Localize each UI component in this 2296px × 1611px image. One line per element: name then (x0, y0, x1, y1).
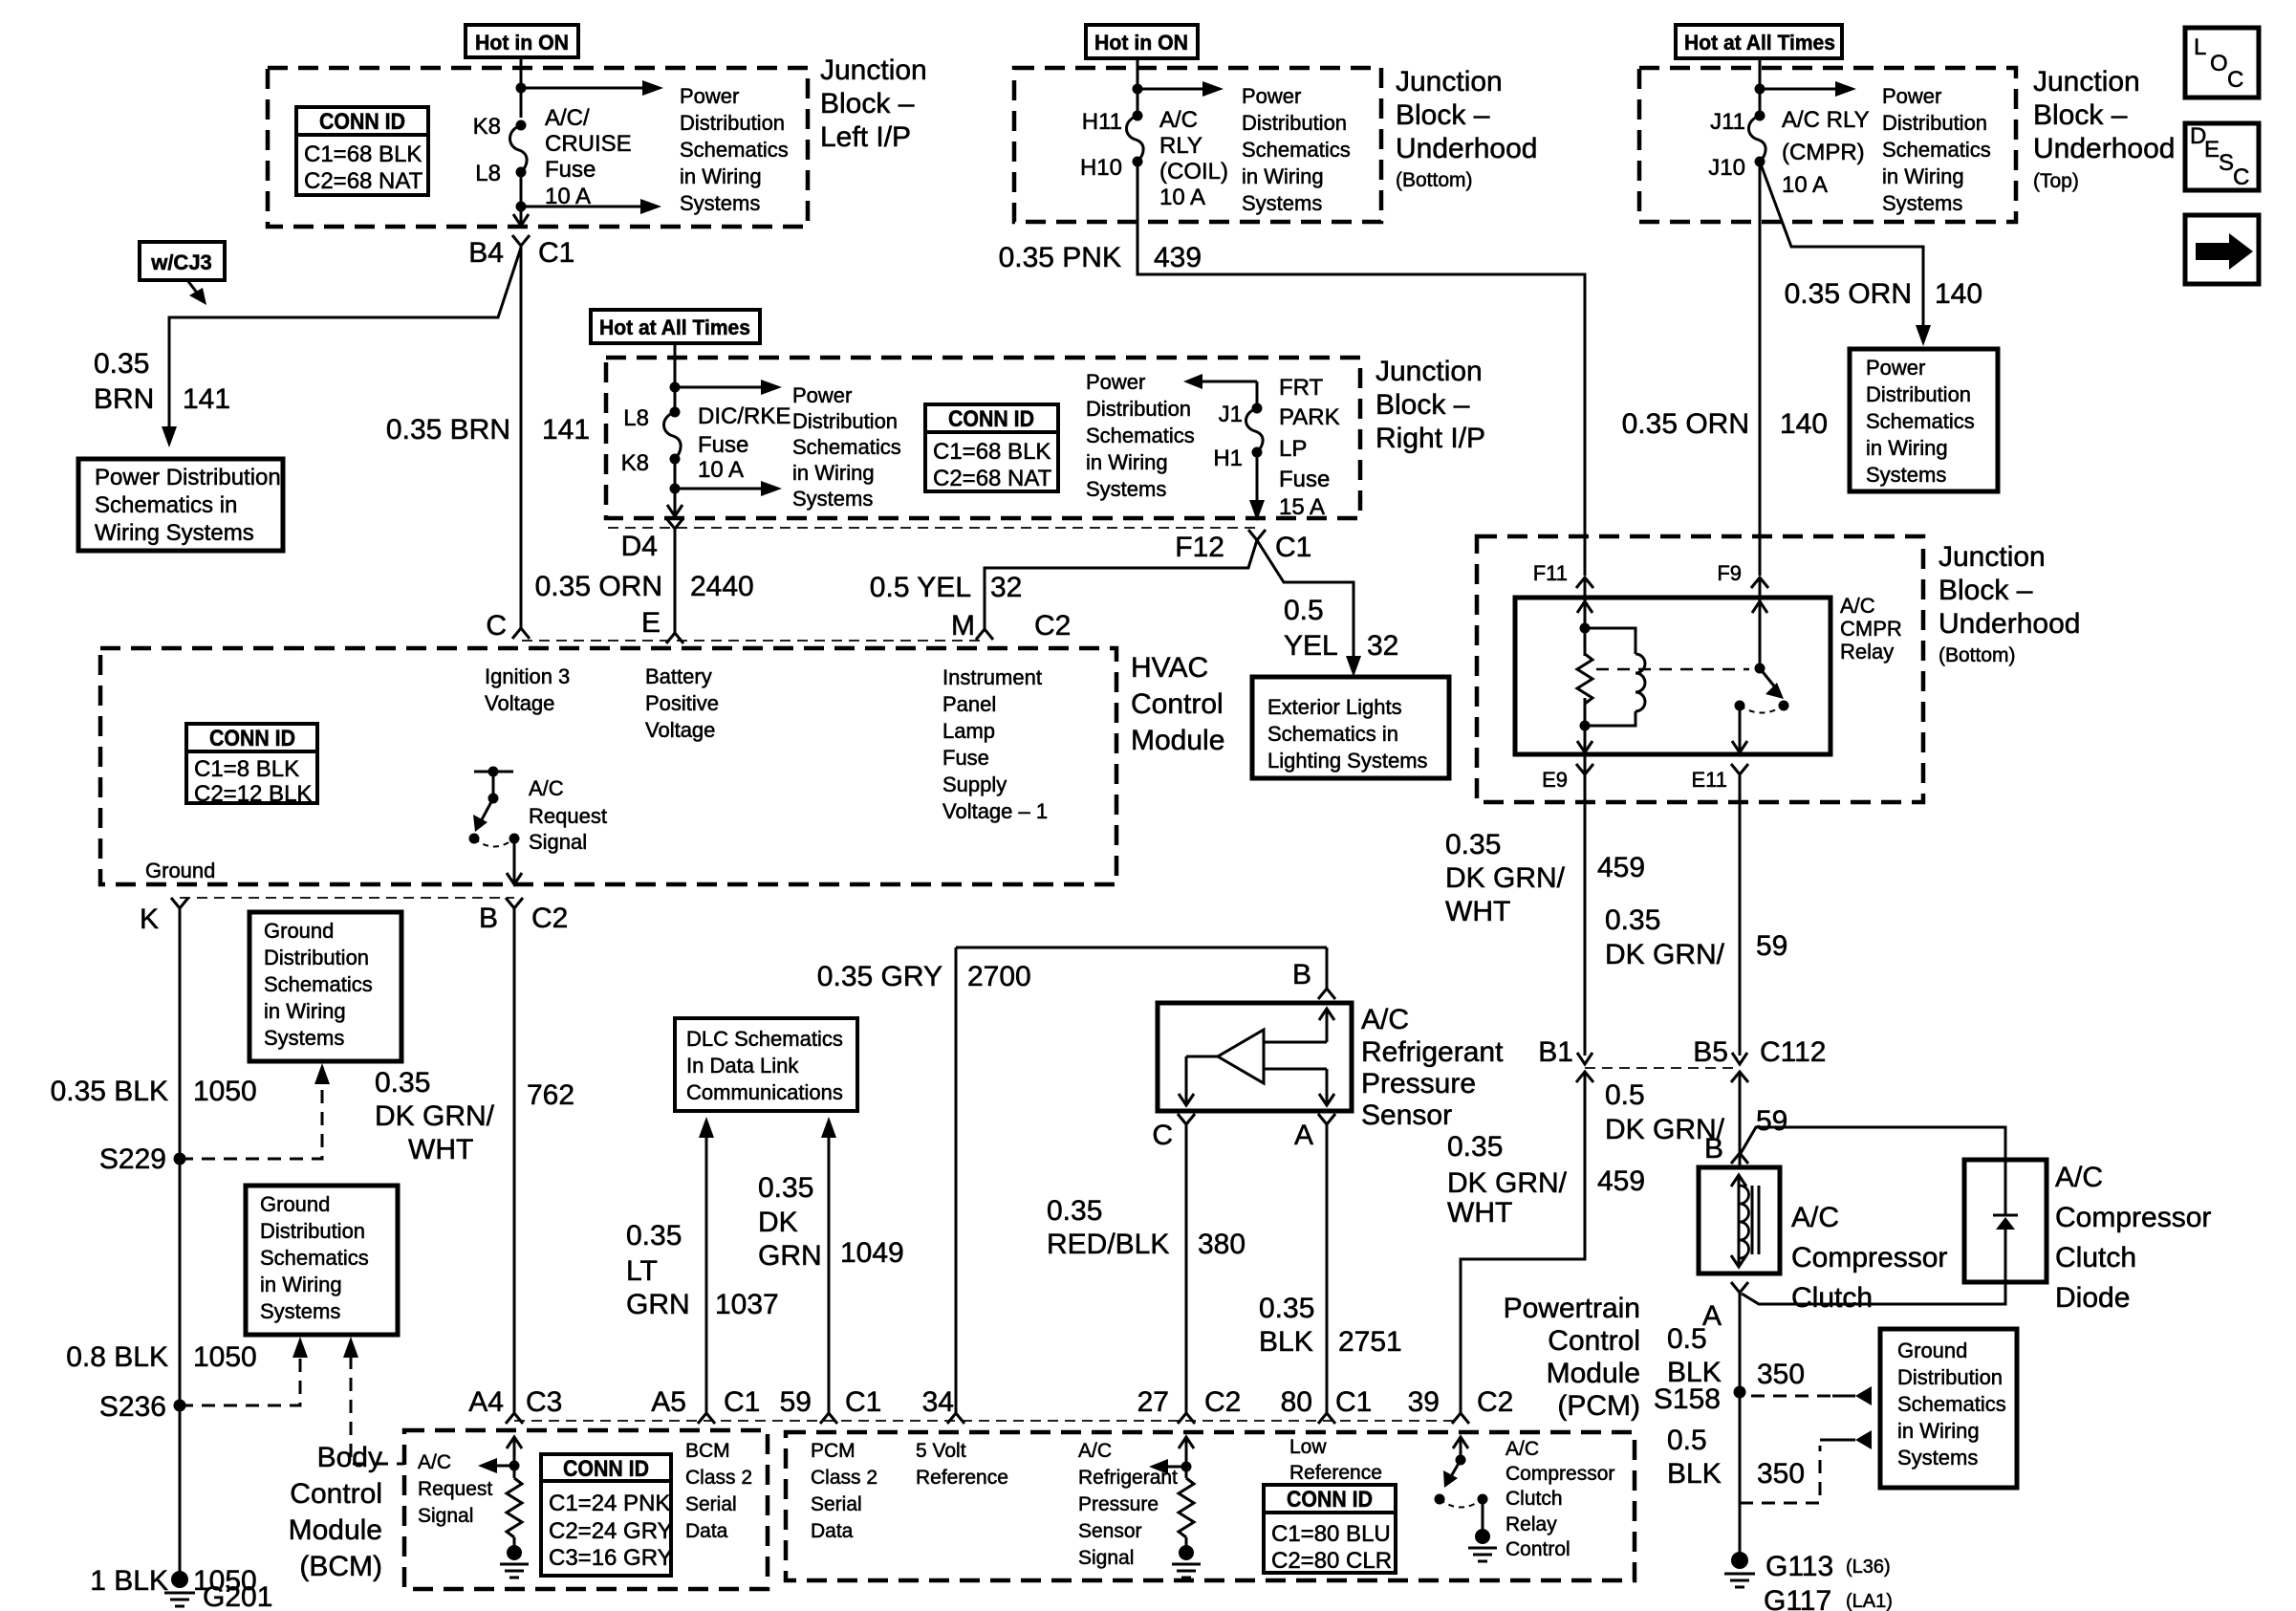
svg-text:Distribution: Distribution (1086, 397, 1191, 421)
connector D4 (621, 518, 683, 562)
svg-text:C1=8 BLK: C1=8 BLK (194, 756, 299, 782)
svg-text:Schematics: Schematics (260, 1246, 369, 1270)
svg-text:0.35: 0.35 (1447, 1131, 1503, 1163)
Power Distribution Schematics in Wiring Systems box (left) (78, 459, 283, 551)
Hot in ON box (middle) (1086, 25, 1198, 58)
wire F12 branch left to HVAC pin M (985, 540, 1257, 629)
svg-text:459: 459 (1597, 1165, 1645, 1197)
svg-text:Block –: Block – (820, 88, 915, 120)
dashed ground reference S158 (1751, 1386, 1872, 1405)
svg-text:(PCM): (PCM) (1557, 1390, 1640, 1422)
svg-text:E9: E9 (1542, 768, 1568, 792)
svg-text:Distribution: Distribution (680, 111, 785, 135)
connector line C2 thin dashed (bottom) (180, 897, 514, 899)
svg-text:RLY: RLY (1159, 133, 1202, 159)
svg-text:0.5: 0.5 (1667, 1425, 1707, 1456)
connector F11 (1533, 561, 1593, 588)
svg-text:C1: C1 (1335, 1386, 1372, 1418)
arrow to Power Distribution (upper) (521, 80, 663, 96)
arrow to Power Distribution (1137, 81, 1224, 97)
svg-text:BCM: BCM (685, 1440, 730, 1462)
svg-text:GRN: GRN (758, 1240, 822, 1272)
svg-text:H10: H10 (1080, 155, 1122, 181)
svg-text:Signal: Signal (529, 830, 587, 854)
svg-text:0.35 ORN: 0.35 ORN (535, 571, 662, 602)
svg-text:C1=68 BLK: C1=68 BLK (933, 439, 1051, 465)
svg-text:Refrigerant: Refrigerant (1361, 1036, 1504, 1068)
svg-text:59: 59 (1756, 1105, 1787, 1137)
wire Hot at All Times down (1759, 58, 1762, 116)
label A/C Compressor Clutch Diode (2055, 1162, 2211, 1314)
svg-text:80: 80 (1281, 1386, 1312, 1418)
label Junction Block Underhood (Top) (2033, 66, 2175, 192)
relay coil input arrow (1577, 601, 1592, 613)
label 0.35 DK GRN/ WHT | 762 (375, 1067, 574, 1165)
svg-text:A: A (1294, 1120, 1313, 1151)
svg-text:S229: S229 (99, 1143, 166, 1175)
svg-text:L: L (2194, 34, 2206, 60)
svg-text:Relay: Relay (1505, 1513, 1557, 1535)
svg-text:Wiring Systems: Wiring Systems (95, 520, 254, 546)
w/CJ3 pointer arrow (187, 280, 206, 305)
relay switch output wire (1739, 706, 1742, 752)
svg-text:E: E (641, 607, 661, 639)
wire 140 main: J10 down to F9 (1759, 162, 1762, 576)
svg-text:Ground: Ground (264, 919, 334, 943)
svg-text:Compressor: Compressor (1505, 1463, 1614, 1485)
svg-text:Control: Control (1548, 1325, 1640, 1357)
svg-text:0.35 ORN: 0.35 ORN (1785, 278, 1912, 310)
arrow to Power Distribution (675, 380, 782, 395)
relay junction dot (1580, 623, 1591, 634)
svg-text:Hot in ON: Hot in ON (475, 31, 569, 54)
wire diode branch top (1740, 1127, 2005, 1160)
svg-text:39: 39 (1408, 1386, 1440, 1418)
svg-text:Distribution: Distribution (1242, 111, 1347, 135)
label 0.8 BLK | 1050 (66, 1341, 257, 1373)
svg-text:140: 140 (1780, 408, 1828, 440)
svg-text:BLK: BLK (1259, 1326, 1313, 1358)
svg-text:Systems: Systems (1086, 477, 1166, 501)
Hot at All Times box (middle) (591, 310, 760, 343)
svg-text:Schematics in: Schematics in (1267, 722, 1398, 746)
wire 140 branch: J10 to Power Distribution box (1760, 162, 1931, 346)
svg-text:In Data Link: In Data Link (686, 1054, 799, 1078)
svg-text:A/C: A/C (1791, 1202, 1839, 1233)
svg-text:BLK: BLK (1667, 1458, 1722, 1490)
text BCM Class 2 Serial Data (685, 1440, 752, 1542)
junction node dot (516, 83, 527, 94)
svg-text:Compressor: Compressor (2055, 1202, 2211, 1233)
svg-text:15 A: 15 A (1279, 494, 1325, 520)
svg-text:0.35 PNK: 0.35 PNK (999, 242, 1121, 273)
dashed ground reference lower (1740, 1430, 1872, 1503)
svg-text:Control: Control (1505, 1538, 1570, 1560)
svg-text:Compressor: Compressor (1791, 1242, 1947, 1274)
Ground Distribution Schematics box (right) (1880, 1329, 2017, 1488)
svg-text:A/C RLY: A/C RLY (1782, 107, 1870, 133)
pin text Battery Positive Voltage (645, 664, 719, 742)
wire Hot in ON down to fuse (520, 57, 523, 118)
svg-text:(Top): (Top) (2033, 170, 2079, 192)
svg-text:Power: Power (1086, 370, 1145, 394)
svg-text:Fuse: Fuse (698, 432, 748, 458)
pin text Instrument Panel Lamp Fuse Supply Voltage - 1 (942, 665, 1048, 823)
svg-text:in Wiring: in Wiring (264, 999, 346, 1023)
svg-text:Right I/P: Right I/P (1375, 423, 1485, 454)
svg-text:C: C (1152, 1120, 1173, 1151)
junction block - Right I/P dashed box (606, 358, 1360, 518)
svg-text:350: 350 (1757, 1359, 1805, 1390)
svg-text:1050: 1050 (193, 1076, 257, 1107)
svg-text:Block –: Block – (1939, 575, 2033, 606)
splice S158 (1654, 1383, 1746, 1415)
svg-text:Junction: Junction (1396, 66, 1503, 98)
svg-text:0.35 BRN: 0.35 BRN (386, 414, 510, 446)
connector 80 / C1 (1281, 1386, 1373, 1424)
svg-text:0.35: 0.35 (1047, 1195, 1102, 1227)
svg-text:C2=80 CLR: C2=80 CLR (1271, 1548, 1392, 1574)
svg-text:Reference: Reference (1289, 1462, 1382, 1484)
svg-text:Panel: Panel (942, 692, 996, 716)
svg-text:Hot in ON: Hot in ON (1094, 31, 1188, 54)
label 0.35 ORN | 140 (main) (1622, 408, 1828, 440)
label Junction Block Underhood (Bottom) (1939, 541, 2080, 666)
svg-text:Fuse: Fuse (942, 746, 989, 770)
label 0.35 DK GRN | 1049 (758, 1172, 904, 1272)
label 1 BLK | 1050 (90, 1565, 256, 1597)
label 0.35 BLK | 1050 (51, 1076, 257, 1107)
svg-text:Positive: Positive (645, 691, 719, 715)
svg-text:in Wiring: in Wiring (1866, 436, 1948, 460)
svg-text:2440: 2440 (690, 571, 754, 602)
sensor internals (1179, 1009, 1334, 1105)
svg-text:YEL: YEL (1284, 630, 1338, 662)
svg-text:in Wiring: in Wiring (1086, 450, 1168, 474)
svg-text:in Wiring: in Wiring (1242, 164, 1324, 188)
svg-text:in Wiring: in Wiring (1882, 164, 1964, 188)
label 0.35 ORN | 2440 (535, 571, 754, 602)
svg-text:Underhood: Underhood (1396, 133, 1537, 164)
svg-text:32: 32 (1367, 630, 1398, 662)
svg-text:Sensor: Sensor (1361, 1099, 1452, 1131)
svg-text:Schematics: Schematics (680, 138, 789, 162)
svg-text:Reference: Reference (916, 1467, 1008, 1489)
svg-text:CMPR: CMPR (1840, 617, 1902, 641)
A/C compressor clutch diode box (1964, 1160, 2047, 1282)
svg-text:RED/BLK: RED/BLK (1047, 1229, 1169, 1260)
svg-text:Relay: Relay (1840, 640, 1894, 664)
svg-text:C1: C1 (845, 1386, 881, 1418)
wire diode branch bottom (1742, 1282, 2005, 1304)
svg-text:in Wiring: in Wiring (260, 1273, 342, 1296)
svg-text:O: O (2210, 51, 2228, 76)
svg-text:DLC Schematics: DLC Schematics (686, 1027, 843, 1051)
A/C compressor clutch box (1699, 1167, 1780, 1274)
svg-text:Systems: Systems (1866, 463, 1946, 487)
label 0.35 LT GRN | 1037 (626, 1220, 779, 1320)
A/C request signal input (BCM resistor) (478, 1437, 529, 1578)
label 0.5 BLK | 350 (lower) (1667, 1425, 1805, 1490)
connector A (sensor) (1294, 1114, 1335, 1151)
svg-text:Systems: Systems (1882, 191, 1962, 215)
relay internal dashed link (1596, 668, 1749, 671)
connector E11 (1691, 764, 1748, 792)
wire fuse output (520, 172, 523, 226)
A/C compressor clutch relay control switch (PCM) (1435, 1437, 1498, 1561)
junction node dot (1133, 84, 1143, 95)
junction block - Underhood (Top) dashed box (1639, 68, 2016, 222)
svg-text:Low: Low (1289, 1436, 1327, 1458)
arrow to Systems (lower) (521, 199, 661, 214)
arrow from FRT PARK fuse to Power Distribution (pointing left) (1183, 374, 1257, 408)
svg-text:Block –: Block – (1375, 389, 1470, 421)
svg-text:DIC/RKE: DIC/RKE (698, 403, 791, 429)
svg-text:in Wiring: in Wiring (680, 164, 762, 188)
svg-text:DK GRN/: DK GRN/ (375, 1100, 495, 1132)
Body Control Module dashed box (404, 1430, 768, 1589)
svg-text:0.35 BLK: 0.35 BLK (51, 1076, 168, 1107)
svg-text:DK GRN/: DK GRN/ (1447, 1167, 1568, 1199)
svg-text:F12: F12 (1175, 532, 1224, 563)
wire K down to G201 (179, 908, 182, 1579)
junction block - Left I/P dashed box (268, 68, 808, 227)
A/C request switch (469, 767, 523, 885)
svg-text:(L36): (L36) (1846, 1557, 1891, 1578)
CONN ID table (HVAC 8 BLK / 12 BLK) (186, 724, 317, 807)
connector line C2 thin dashed (top) (522, 640, 985, 642)
connector line C1 (thin dashed) (608, 527, 1257, 529)
w/CJ3 box (140, 242, 225, 280)
svg-text:Data: Data (811, 1520, 854, 1542)
text Power Distribution Schematics in Wiring Systems (left JB) (680, 84, 789, 215)
svg-text:Diode: Diode (2055, 1282, 2130, 1314)
svg-text:C2: C2 (1204, 1386, 1241, 1418)
wire 439: H10 down, over, down to F11 (1137, 162, 1585, 576)
svg-text:A/C: A/C (2055, 1162, 2103, 1193)
svg-text:Underhood: Underhood (1939, 608, 2080, 640)
wire 59 up to DLC with arrow (1049) (821, 1117, 836, 1413)
svg-text:Body: Body (317, 1442, 382, 1473)
connector A (clutch) (1702, 1282, 1748, 1332)
svg-text:Distribution: Distribution (792, 409, 898, 433)
svg-text:A/C/: A/C/ (545, 105, 590, 131)
svg-text:Power: Power (1882, 84, 1941, 108)
CONN ID table (PCM) (1264, 1485, 1396, 1574)
svg-text:B: B (1704, 1133, 1723, 1165)
svg-text:w/CJ3: w/CJ3 (150, 250, 212, 274)
A/C Refrigerant Pressure Sensor box (1158, 1003, 1352, 1111)
svg-text:Schematics: Schematics (1897, 1392, 2006, 1416)
svg-text:0.35: 0.35 (758, 1172, 813, 1204)
svg-text:K8: K8 (621, 450, 649, 476)
svg-text:Class 2: Class 2 (685, 1467, 752, 1489)
text A/C Compressor Clutch Relay Control (1505, 1438, 1614, 1560)
connector C (sensor) (1152, 1114, 1195, 1151)
svg-text:CONN ID: CONN ID (563, 1456, 649, 1482)
svg-text:B1: B1 (1538, 1036, 1573, 1068)
label HVAC Control Module (1131, 652, 1224, 756)
svg-text:B5: B5 (1693, 1036, 1728, 1068)
svg-text:439: 439 (1154, 242, 1202, 273)
svg-text:Distribution: Distribution (1897, 1365, 2003, 1389)
svg-text:C2=68 NAT: C2=68 NAT (304, 168, 423, 194)
svg-text:(CMPR): (CMPR) (1782, 140, 1865, 165)
svg-text:WHT: WHT (1447, 1197, 1512, 1229)
text A/C Request Signal (HVAC) (529, 776, 607, 854)
svg-text:Junction: Junction (2033, 66, 2140, 98)
connector B / C2 (479, 898, 568, 934)
svg-text:C2: C2 (531, 903, 568, 934)
svg-text:32: 32 (990, 572, 1022, 603)
svg-text:C2=68 NAT: C2=68 NAT (933, 466, 1052, 491)
svg-text:(Bottom): (Bottom) (1939, 644, 2016, 666)
svg-text:C2=12 BLK: C2=12 BLK (194, 781, 312, 807)
text PCM Class 2 Serial Data (811, 1440, 877, 1542)
svg-text:C3=16 GRY: C3=16 GRY (549, 1545, 673, 1571)
fuse A/C RLY (CMPR) 10A (1708, 107, 1869, 198)
junction block - Underhood (Bottom) dashed box (top) (1014, 68, 1381, 222)
wire A5 up to DLC with arrow (1037) (699, 1117, 714, 1413)
CONN ID table (BCM) (541, 1454, 673, 1576)
label A/C Compressor Clutch (1791, 1202, 1947, 1314)
wire into clutch (1739, 1153, 1742, 1167)
svg-text:Distribution: Distribution (260, 1219, 365, 1243)
svg-text:L8: L8 (623, 405, 649, 431)
label 0.5 BLK | 350 (upper) (1667, 1323, 1805, 1390)
svg-text:27: 27 (1137, 1386, 1169, 1418)
svg-text:0.5: 0.5 (1667, 1323, 1707, 1355)
junction node dot (1755, 84, 1765, 95)
text Power Distribution Schematics in Wiring Systems (1882, 84, 1991, 215)
svg-text:PCM: PCM (811, 1440, 856, 1462)
svg-text:0.5 YEL: 0.5 YEL (870, 572, 971, 603)
connector B1 (1538, 1036, 1593, 1082)
svg-text:141: 141 (183, 383, 230, 415)
svg-text:10 A: 10 A (1782, 172, 1828, 198)
svg-text:Pressure: Pressure (1078, 1493, 1159, 1515)
relay coil (1585, 628, 1645, 726)
svg-text:G117: G117 (1764, 1585, 1831, 1611)
relay bottom junction dot (1580, 721, 1591, 731)
svg-text:C1=24 PNK: C1=24 PNK (549, 1491, 670, 1516)
text Power Distribution Schematics in Wiring Systems (1242, 84, 1351, 215)
text 5 Volt Reference (916, 1440, 1008, 1489)
wire Hot in ON down (1137, 58, 1139, 116)
connector B4 / C1 (468, 235, 574, 269)
svg-text:A/C: A/C (1078, 1440, 1112, 1462)
label 0.35 DK GRN/ WHT | 459 (lower) (1447, 1131, 1645, 1229)
svg-text:Schematics: Schematics (1866, 409, 1975, 433)
svg-text:K8: K8 (473, 114, 501, 140)
label Junction Block Left I/P (820, 54, 927, 153)
svg-text:F11: F11 (1533, 561, 1568, 585)
text A/C Request Signal (BCM) (418, 1451, 492, 1527)
label 0.35 RED/BLK | 380 (1047, 1195, 1245, 1260)
svg-text:Systems: Systems (680, 191, 760, 215)
ground G201 (164, 1571, 272, 1611)
label A/C Refrigerant Pressure Sensor (1361, 1004, 1504, 1131)
svg-text:E: E (2204, 137, 2220, 163)
fuse FRT PARK LP 15A (1213, 375, 1339, 520)
svg-text:K: K (140, 903, 159, 935)
clutch coil symbol (1731, 1175, 1759, 1267)
svg-text:C: C (2227, 67, 2243, 93)
connector A4 / C3 (468, 1386, 562, 1424)
svg-text:10 A: 10 A (1159, 185, 1205, 210)
svg-text:Systems: Systems (1897, 1446, 1978, 1469)
svg-text:CONN ID: CONN ID (319, 109, 405, 135)
svg-text:Supply: Supply (942, 773, 1007, 796)
svg-text:Schematics: Schematics (1882, 138, 1991, 162)
svg-text:WHT: WHT (1445, 896, 1510, 927)
svg-text:GRN: GRN (626, 1289, 690, 1320)
svg-text:Systems: Systems (264, 1026, 344, 1050)
svg-text:Power: Power (1866, 356, 1925, 380)
svg-text:0.35: 0.35 (1259, 1293, 1314, 1324)
svg-text:Underhood: Underhood (2033, 133, 2175, 164)
svg-text:C2: C2 (1034, 610, 1071, 642)
text A/C Refrigerant Pressure Sensor Signal (1078, 1440, 1178, 1569)
svg-text:C1=80 BLU: C1=80 BLU (1271, 1521, 1391, 1547)
relay output arrow E11 (1732, 741, 1747, 752)
diode symbol (1993, 1160, 2018, 1282)
wire H1 output with arrow (1249, 452, 1265, 521)
svg-text:0.35: 0.35 (626, 1220, 682, 1252)
svg-text:Block –: Block – (2033, 99, 2128, 131)
svg-text:Clutch: Clutch (1791, 1282, 1873, 1314)
A/C CMPR relay box (1515, 598, 1830, 754)
svg-text:0.35: 0.35 (375, 1067, 430, 1099)
svg-text:C2: C2 (1477, 1386, 1513, 1418)
arrow down into Power Distribution box (162, 426, 177, 447)
label 0.35 BRN | 141 (main wire) (386, 414, 590, 446)
svg-text:0.35 GRY: 0.35 GRY (817, 961, 942, 992)
svg-text:Module: Module (1547, 1358, 1640, 1389)
label Junction Block Right I/P (1375, 356, 1485, 454)
svg-text:C2=24 GRY: C2=24 GRY (549, 1518, 673, 1544)
svg-text:Schematics: Schematics (792, 435, 901, 459)
svg-text:140: 140 (1935, 278, 1982, 310)
svg-text:Hot at All Times: Hot at All Times (599, 316, 750, 339)
connector F12 / C1 (1175, 530, 1311, 563)
connector B (clutch) (1704, 1133, 1748, 1165)
DESC box (2185, 123, 2259, 190)
svg-text:Module: Module (1131, 725, 1224, 756)
svg-text:PARK: PARK (1279, 404, 1340, 430)
svg-text:762: 762 (527, 1079, 574, 1111)
svg-text:Fuse: Fuse (1279, 467, 1330, 492)
connector 34 (5 volt ref) (922, 1386, 964, 1424)
svg-text:Module: Module (289, 1514, 382, 1546)
label Powertrain Control Module (PCM) (1504, 1293, 1640, 1422)
fuse DIC/RKE 10A (621, 403, 791, 483)
svg-text:1 BLK: 1 BLK (90, 1565, 168, 1597)
branch wire to w/CJ3 run (169, 248, 521, 430)
svg-text:Serial: Serial (811, 1493, 862, 1515)
text Low Reference (1289, 1436, 1382, 1484)
HVAC Control Module dashed box (100, 648, 1116, 884)
svg-text:Request: Request (529, 804, 607, 828)
CONN ID table (68 BLK / 68 NAT) right IP (925, 404, 1058, 491)
wire F12 branch to Exterior Lights (0.5 YEL 32) (1257, 540, 1361, 677)
next-page arrow box (2185, 215, 2259, 284)
svg-text:CRUISE: CRUISE (545, 131, 632, 157)
svg-text:C1: C1 (538, 237, 574, 269)
svg-text:Schematics: Schematics (1242, 138, 1351, 162)
wire sensor C down to PCM 27 (1185, 1124, 1188, 1413)
dashed ground reference path S229 (180, 1063, 330, 1159)
